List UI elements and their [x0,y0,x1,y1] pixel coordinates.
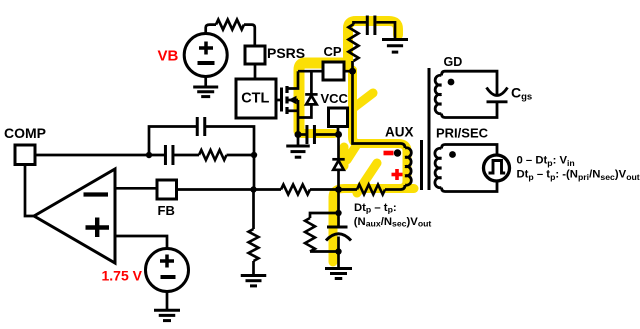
svg-text:0 – Dtp​: Vin​: 0 – Dtp​: Vin​ [517,155,575,168]
svg-text:VCC: VCC [321,91,349,106]
svg-text:GD: GD [444,55,463,69]
svg-text:VB: VB [158,48,179,65]
svg-text:AUX: AUX [385,125,414,140]
svg-text:FB: FB [158,203,175,218]
svg-text:CTL: CTL [241,91,269,107]
svg-text:CP: CP [324,44,342,59]
svg-text:COMP: COMP [4,125,46,141]
svg-text:Dtp​ – tp​:: Dtp​ – tp​: [354,202,397,215]
svg-text:(Naux​/Nsec​)Vout​: (Naux​/Nsec​)Vout​ [354,216,432,229]
svg-text:PSRS: PSRS [267,45,305,61]
svg-text:PRI/SEC: PRI/SEC [436,126,489,141]
svg-text:1.75 V: 1.75 V [102,268,143,284]
